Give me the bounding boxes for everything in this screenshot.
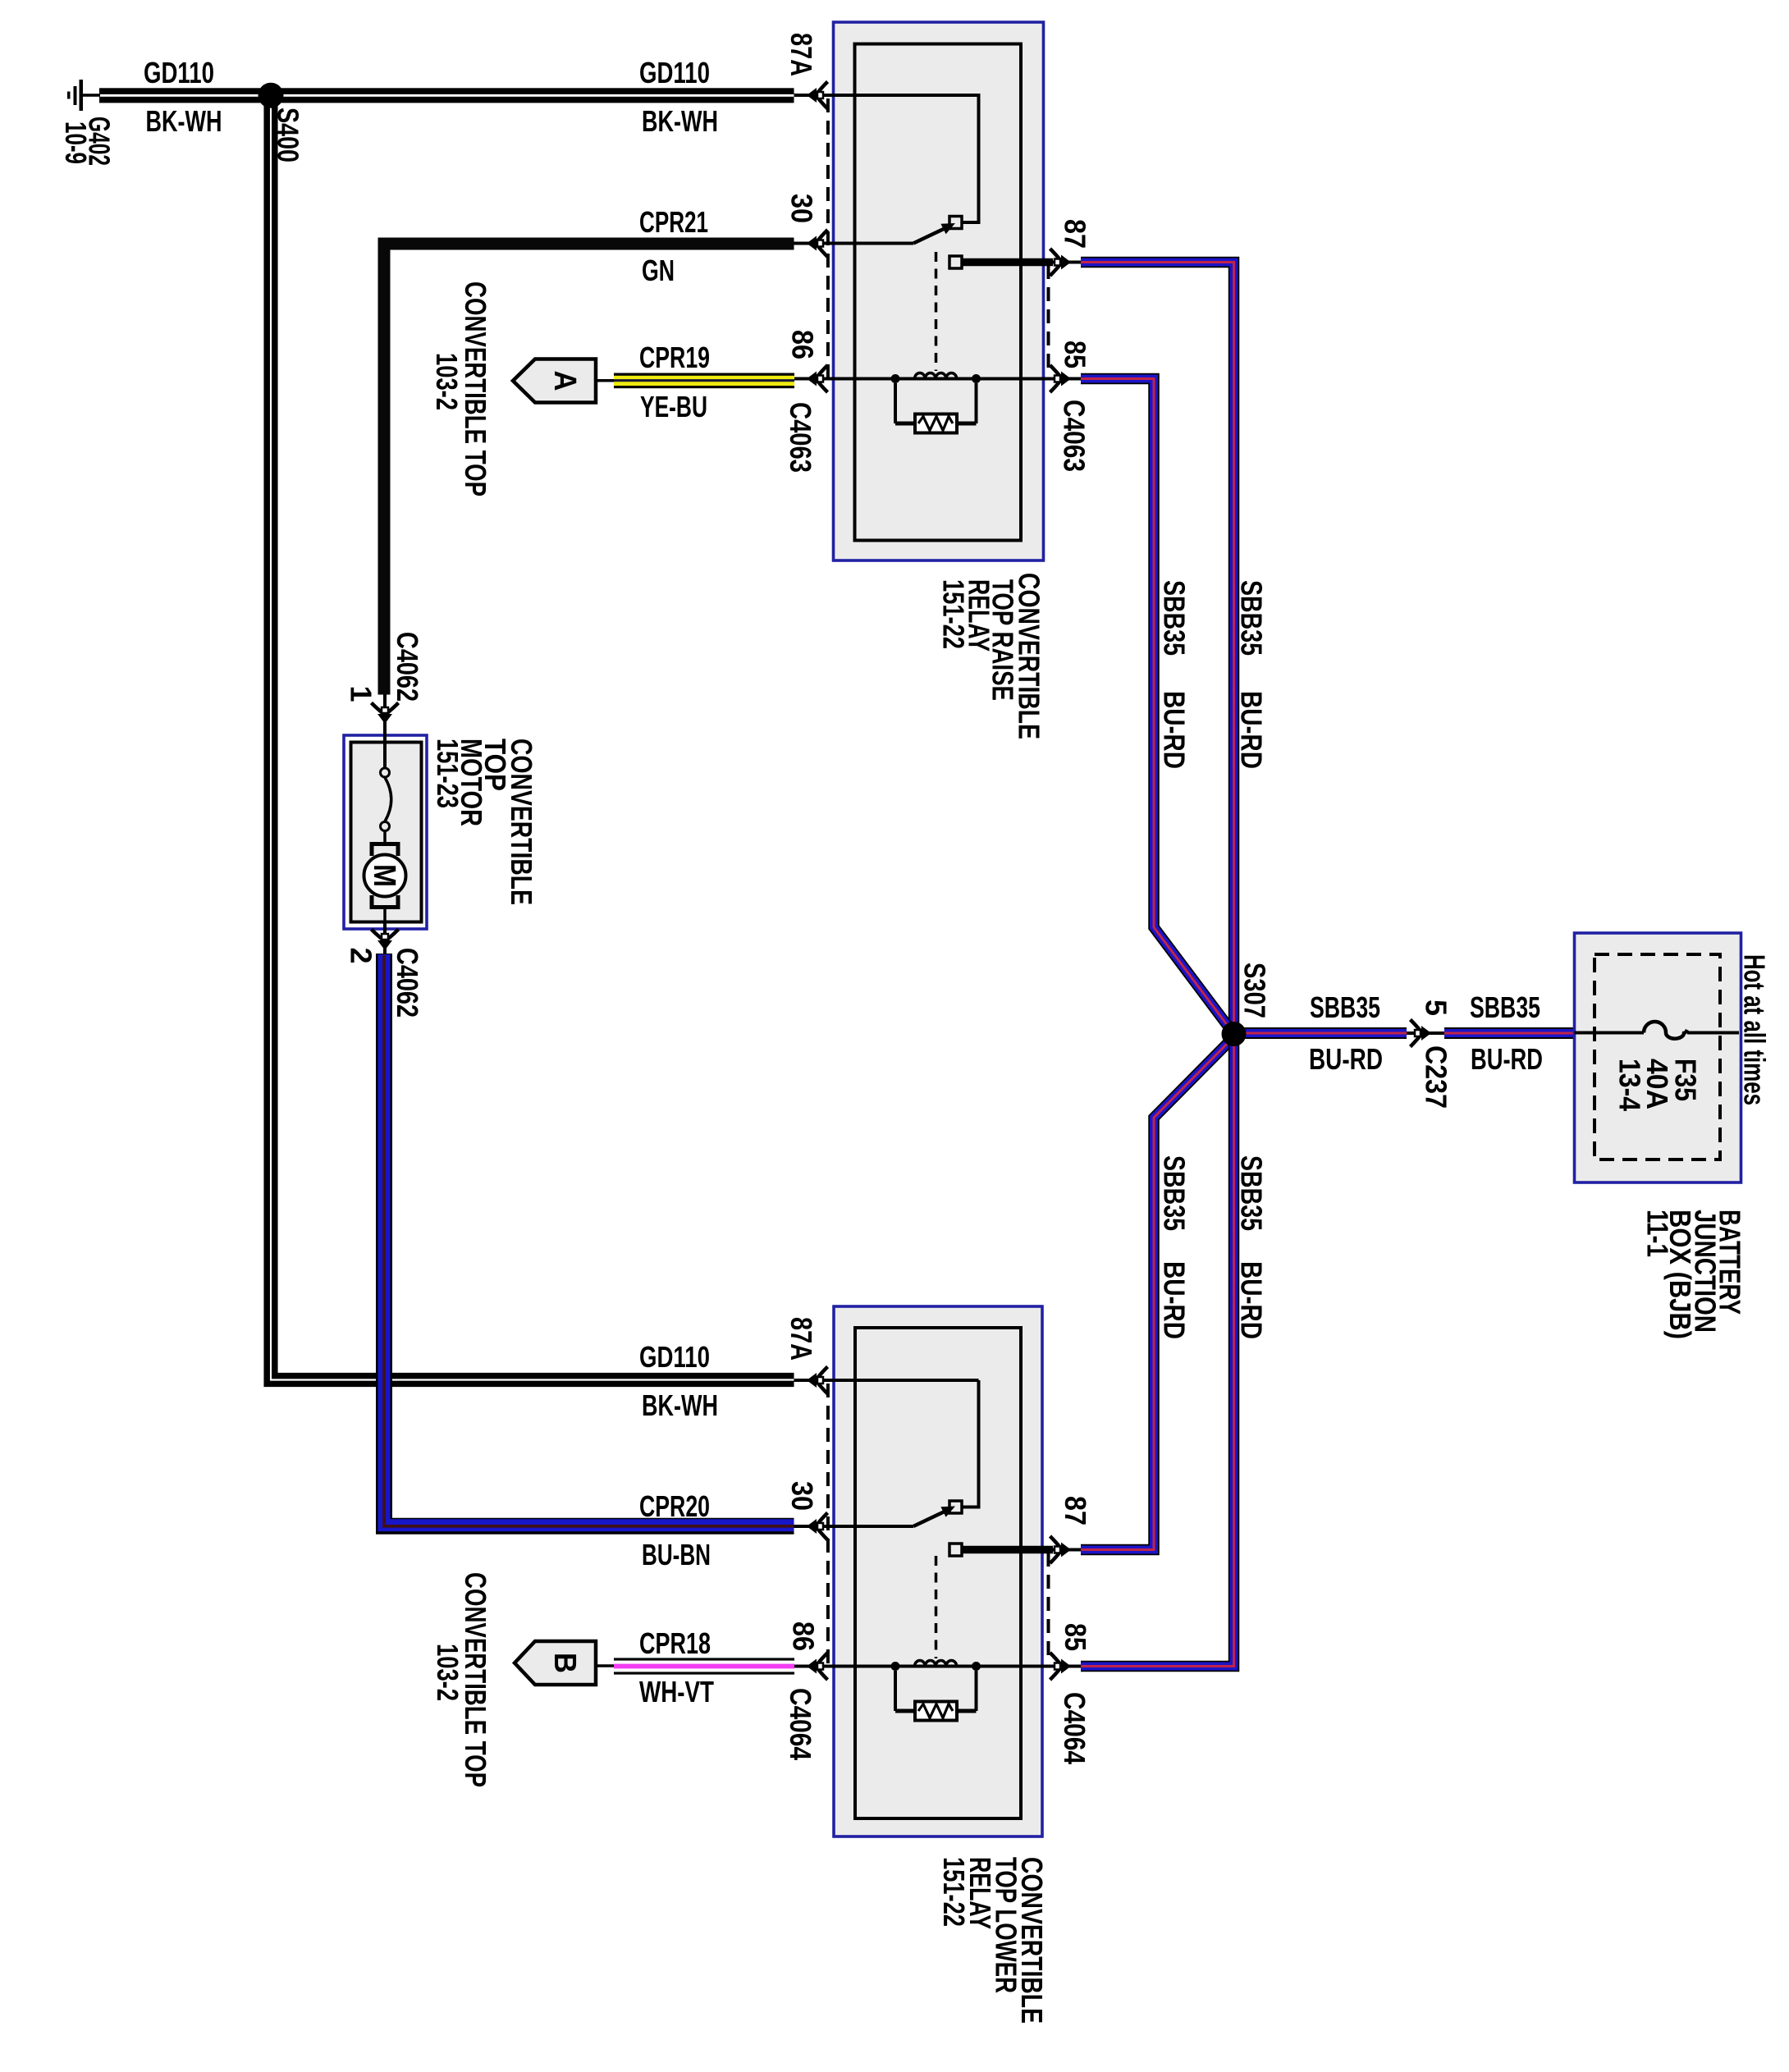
svg-text:30: 30	[785, 194, 819, 223]
connector C4064 dashed boundary left	[826, 1384, 830, 1663]
connector C237 lead	[1407, 1031, 1446, 1035]
svg-text:85: 85	[1059, 341, 1092, 368]
svg-text:CPR18: CPR18	[639, 1626, 711, 1660]
svg-text:10-9: 10-9	[59, 121, 93, 164]
svg-text:87A: 87A	[785, 1317, 818, 1361]
fuse F35 40A	[1575, 1022, 1740, 1039]
svg-text:A: A	[547, 371, 582, 391]
svg-text:C4062: C4062	[391, 632, 424, 702]
svg-text:C4064: C4064	[1058, 1692, 1091, 1764]
wire GD110 BK-WH into lower 87A	[794, 1379, 979, 1382]
motor M symbol	[364, 844, 406, 923]
resistor parallel to coil (raise)	[895, 383, 977, 433]
wire SBB35 BU-RD S307 to C237	[1233, 1027, 1407, 1039]
connector arrow 87 (raise)	[1050, 249, 1072, 276]
junction S307	[1222, 1022, 1247, 1046]
svg-text:103-2: 103-2	[430, 353, 464, 410]
svg-text:2: 2	[345, 948, 378, 964]
pin 30 line into lower relay	[794, 1525, 914, 1528]
connector arrow C4062 pin 1	[372, 703, 399, 725]
svg-text:BK-WH: BK-WH	[642, 104, 718, 138]
svg-text:103-2: 103-2	[431, 1644, 464, 1701]
pin 87 stub (lower)	[962, 1546, 1053, 1554]
svg-text:C4063: C4063	[1058, 400, 1091, 472]
svg-text:BU-RD: BU-RD	[1471, 1042, 1543, 1076]
coil line 86-85 (lower)	[794, 1665, 1081, 1668]
coil (raise)	[891, 373, 981, 383]
svg-text:BU-RD: BU-RD	[1309, 1042, 1383, 1076]
svg-text:CPR19: CPR19	[639, 341, 710, 374]
connector C4063 dashed boundary left	[826, 98, 830, 378]
svg-text:CPR21: CPR21	[639, 205, 708, 239]
contact 87 square (raise)	[949, 256, 962, 268]
svg-text:GN: GN	[642, 254, 675, 287]
svg-text:11-1: 11-1	[1641, 1210, 1675, 1257]
wire SBB35 BU-RD S307 to lower 87	[1081, 1036, 1235, 1550]
svg-text:87: 87	[1059, 1496, 1092, 1525]
ground G402	[67, 80, 100, 111]
svg-text:151-23: 151-23	[431, 739, 464, 808]
connector B	[515, 1641, 596, 1685]
pin 87A path inside raise relay	[794, 95, 979, 222]
connector arrow 30 (raise)	[807, 230, 828, 257]
wire CPR20 BU-BN	[384, 954, 794, 1526]
connector A	[513, 359, 596, 403]
connector arrow 87 (lower)	[1050, 1536, 1072, 1563]
lead from connector B	[596, 1664, 615, 1667]
svg-text:C4063: C4063	[784, 402, 817, 473]
connector C4063 dashed boundary right	[1047, 265, 1050, 376]
label F35 40A 13-4	[1613, 1059, 1703, 1111]
coil (lower)	[891, 1660, 981, 1671]
svg-text:BK-WH: BK-WH	[642, 1388, 718, 1422]
svg-text:86: 86	[786, 330, 820, 359]
svg-text:87: 87	[1059, 219, 1092, 249]
svg-text:SBB35: SBB35	[1235, 1155, 1269, 1231]
svg-text:M: M	[367, 864, 401, 887]
motor pin 2 lead	[383, 922, 387, 954]
svg-text:GD110: GD110	[144, 56, 214, 89]
resistor parallel to coil (lower)	[895, 1671, 977, 1721]
convertible top raise relay 151-22 box	[834, 22, 1044, 560]
svg-text:85: 85	[1059, 1623, 1092, 1651]
connector arrow 87A (raise)	[807, 82, 828, 109]
svg-text:BU-RD: BU-RD	[1235, 1261, 1269, 1339]
svg-text:SBB35: SBB35	[1235, 580, 1269, 656]
svg-text:SBB35: SBB35	[1310, 990, 1380, 1024]
battery junction box (BJB) 11-1	[1575, 933, 1741, 1182]
label CONVERTIBLE TOP RAISE RELAY 151-22	[937, 573, 1046, 739]
contact 87A square (lower)	[949, 1501, 962, 1513]
motor pin 1 lead	[383, 695, 387, 769]
coil line 86-85 (raise)	[794, 377, 1081, 381]
connector arrow 87A (lower)	[807, 1367, 828, 1394]
wire CPR21 GN	[384, 244, 794, 695]
junction S400	[259, 83, 284, 108]
wire GD110 BK-WH top	[99, 88, 794, 94]
svg-text:13-4: 13-4	[1613, 1059, 1647, 1111]
svg-text:151-22: 151-22	[937, 1857, 971, 1927]
connector arrow 86 (raise)	[807, 365, 828, 392]
contact 87 square (lower)	[949, 1544, 962, 1556]
svg-text:5: 5	[1420, 999, 1453, 1016]
svg-text:B: B	[547, 1653, 582, 1673]
wire SBB35 BU-RD S307 to lower 85	[1081, 1036, 1234, 1667]
wire SBB35 BU-RD raise 85 to S307	[1081, 379, 1233, 1033]
svg-text:BU-BN: BU-BN	[642, 1538, 711, 1571]
connector arrow 85 (lower)	[1050, 1653, 1072, 1680]
svg-text:S400: S400	[272, 107, 305, 162]
svg-text:SBB35: SBB35	[1158, 1155, 1192, 1231]
relay switch arm (raise)	[913, 228, 945, 244]
svg-text:GD110: GD110	[639, 1340, 710, 1374]
svg-text:BU-RD: BU-RD	[1235, 691, 1269, 769]
connector arrow C4062 pin 2	[372, 930, 399, 951]
svg-text:C237: C237	[1420, 1045, 1453, 1109]
wire CPR18 WH-VT	[614, 1658, 794, 1674]
wire CPR19 YE-BU	[614, 373, 794, 389]
label CONVERTIBLE TOP LOWER RELAY 151-22	[937, 1857, 1049, 2024]
label BATTERY JUNCTION BOX (BJB) 11-1	[1641, 1210, 1747, 1339]
svg-text:C4064: C4064	[784, 1688, 817, 1760]
svg-text:30: 30	[785, 1481, 819, 1511]
svg-text:GD110: GD110	[639, 56, 710, 89]
svg-text:BU-RD: BU-RD	[1158, 1261, 1192, 1339]
svg-text:151-22: 151-22	[937, 579, 971, 649]
convertible top lower relay 151-22 box	[834, 1306, 1042, 1836]
connector arrow 85 (raise)	[1050, 365, 1072, 392]
svg-text:C4062: C4062	[391, 948, 424, 1018]
circuit breaker in motor	[381, 768, 391, 844]
svg-text:BU-RD: BU-RD	[1158, 691, 1192, 769]
relay plunger dashed link (raise)	[935, 252, 938, 371]
relay switch arm (lower)	[913, 1512, 945, 1527]
pin 87 stub (raise)	[962, 258, 1053, 267]
wire SBB35 BU-RD raise 87 to S307	[1081, 263, 1234, 1034]
svg-text:Hot at all times: Hot at all times	[1738, 954, 1772, 1105]
svg-text:1: 1	[345, 686, 378, 702]
svg-text:CPR20: CPR20	[639, 1489, 710, 1523]
svg-text:YE-BU: YE-BU	[640, 390, 707, 423]
connector arrow 86 (lower)	[807, 1653, 828, 1680]
wire SBB35 BU-RD C237 to BJB	[1444, 1027, 1575, 1039]
relay plunger dashed link (lower)	[935, 1556, 938, 1658]
label CONVERTIBLE TOP MOTOR 151-23	[431, 739, 538, 905]
pin 30 line into raise relay	[794, 242, 914, 245]
svg-text:86: 86	[787, 1621, 821, 1651]
svg-text:WH-VT: WH-VT	[639, 1675, 714, 1708]
svg-text:87A: 87A	[785, 33, 818, 76]
svg-text:S307: S307	[1238, 963, 1272, 1018]
contact 87A square	[949, 217, 962, 229]
convertible top motor 151-23	[344, 735, 427, 929]
wire BK-WH vertical from S400 to lower GD110 run	[267, 95, 794, 1384]
connector arrow C237	[1411, 1020, 1432, 1047]
svg-text:SBB35: SBB35	[1470, 990, 1540, 1024]
svg-text:SBB35: SBB35	[1158, 580, 1192, 656]
connector C4064 dashed boundary right	[1047, 1553, 1050, 1663]
svg-text:BK-WH: BK-WH	[146, 104, 222, 138]
lead from connector A	[596, 379, 615, 382]
pin 87A path inside lower relay	[963, 1380, 979, 1507]
connector arrow 30 (lower)	[807, 1513, 828, 1540]
